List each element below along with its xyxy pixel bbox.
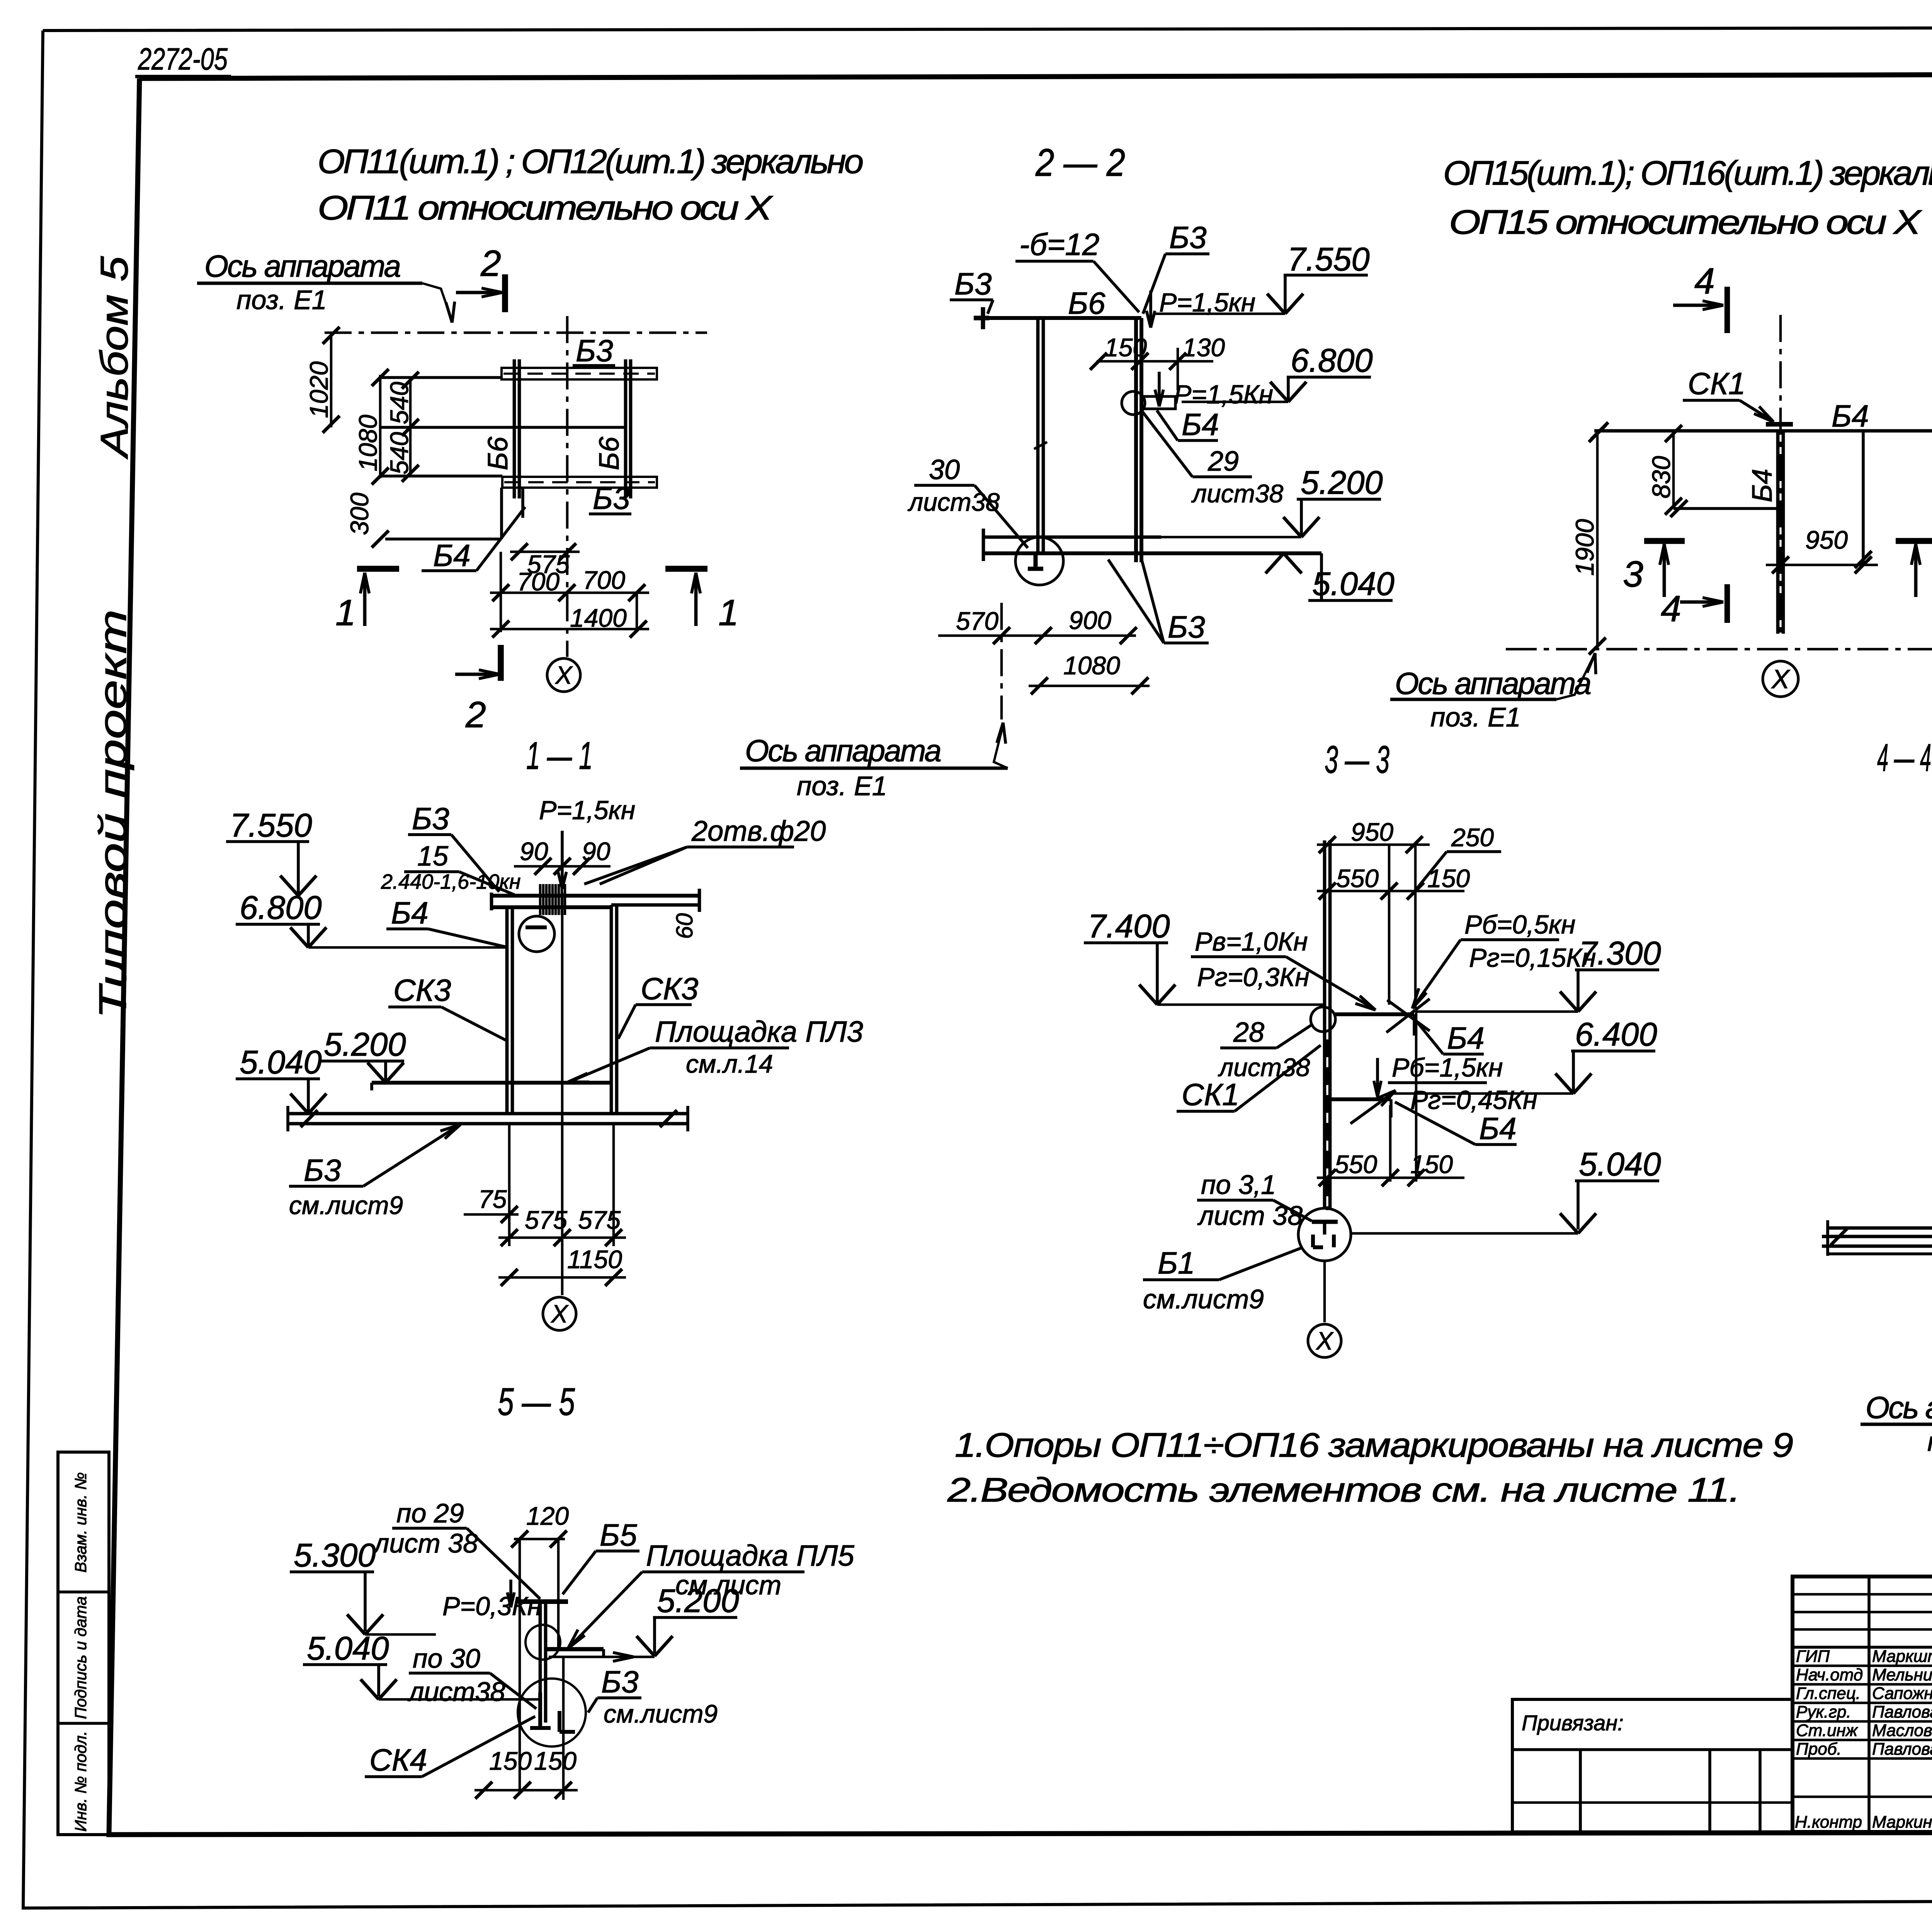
svg-text:ОП11(шт.1) ; ОП12(шт.1) зеркал: ОП11(шт.1) ; ОП12(шт.1) зеркально <box>318 142 863 180</box>
svg-text:Б4: Б4 <box>1447 1021 1485 1055</box>
svg-text:СК3: СК3 <box>393 973 451 1007</box>
svg-text:Б3: Б3 <box>576 333 613 368</box>
svg-text:Н.контр: Н.контр <box>1795 1813 1862 1832</box>
base extension lines <box>508 1124 511 1246</box>
svg-text:15: 15 <box>417 841 449 872</box>
svg-text:120: 120 <box>526 1502 569 1530</box>
svg-text:Ось аппарата: Ось аппарата <box>204 249 400 283</box>
weld circle section1-1 <box>519 916 554 952</box>
svg-text:ОП15(шт.1); ОП16(шт.1) зеркаль: ОП15(шт.1); ОП16(шт.1) зеркально <box>1443 154 1932 192</box>
svg-text:по 29: по 29 <box>396 1498 464 1528</box>
svg-text:Б3: Б3 <box>593 481 630 515</box>
svg-text:Подпись и дата: Подпись и дата <box>71 1596 90 1719</box>
base beam section1-1 <box>288 1112 688 1116</box>
svg-text:575: 575 <box>578 1206 621 1234</box>
column left section2-2 <box>1036 318 1040 553</box>
svg-text:150: 150 <box>534 1747 577 1775</box>
title block outer <box>1793 1577 1932 1832</box>
svg-text:550: 550 <box>1335 1150 1377 1179</box>
dim 1080 <box>372 369 389 386</box>
svg-text:4: 4 <box>1661 588 1681 629</box>
svg-text:Типовой проект: Типовой проект <box>91 609 134 1019</box>
svg-text:5 — 5: 5 — 5 <box>498 1380 575 1423</box>
svg-text:Б3: Б3 <box>304 1153 341 1187</box>
svg-text:-б=12: -б=12 <box>1019 227 1099 262</box>
plan2 centerline vertical <box>1779 315 1782 638</box>
column right section2-2 <box>1134 318 1138 562</box>
dim 830 <box>1672 431 1675 509</box>
svg-text:Б4: Б4 <box>391 896 429 930</box>
svg-text:лист38: лист38 <box>907 488 1000 516</box>
center line section3-3 <box>1323 1261 1326 1322</box>
weld circle mid <box>1122 391 1145 415</box>
svg-text:P=1,5Кн: P=1,5Кн <box>1174 380 1273 409</box>
section marker 3 right <box>1896 538 1932 544</box>
section marker 3 left <box>1644 538 1685 544</box>
svg-text:Маркин: Маркин <box>1872 1813 1932 1832</box>
svg-text:150: 150 <box>1427 864 1470 893</box>
svg-text:Б3: Б3 <box>1168 610 1205 644</box>
svg-text:1080: 1080 <box>354 415 382 471</box>
svg-text:700: 700 <box>583 566 625 594</box>
svg-text:Рук.гр.: Рук.гр. <box>1796 1702 1851 1721</box>
svg-text:30: 30 <box>929 454 960 485</box>
svg-text:Маслова: Маслова <box>1872 1721 1932 1740</box>
svg-text:5.200: 5.200 <box>324 1026 406 1063</box>
center line section1-1 <box>561 893 564 1295</box>
svg-text:Маркштедер: Маркштедер <box>1872 1647 1932 1666</box>
svg-text:5.040: 5.040 <box>240 1044 322 1081</box>
svg-text:лист38: лист38 <box>1191 479 1284 508</box>
svg-text:2272-05: 2272-05 <box>138 42 228 76</box>
svg-text:Б5: Б5 <box>600 1518 637 1552</box>
svg-text:Б3: Б3 <box>1169 220 1207 255</box>
svg-text:4: 4 <box>1694 261 1715 302</box>
svg-text:ГИП: ГИП <box>1796 1647 1830 1666</box>
svg-text:550: 550 <box>1336 864 1379 893</box>
svg-text:90: 90 <box>520 837 548 866</box>
svg-text:5.040: 5.040 <box>307 1630 389 1667</box>
svg-text:Взам. инв. №: Взам. инв. № <box>71 1472 90 1573</box>
svg-text:X: X <box>1315 1327 1334 1355</box>
svg-text:Б3: Б3 <box>412 801 449 836</box>
svg-text:поз. Е1: поз. Е1 <box>1430 702 1521 732</box>
top beam Б6 section2-2 <box>989 316 1141 320</box>
svg-text:6.400: 6.400 <box>1575 1016 1657 1053</box>
svg-text:540: 540 <box>385 432 413 474</box>
svg-text:ОП15 относительно оси Х: ОП15 относительно оси Х <box>1449 203 1922 241</box>
top beam section1-1 <box>492 894 700 898</box>
svg-text:см.лист9: см.лист9 <box>289 1191 403 1219</box>
svg-text:Б3: Б3 <box>601 1665 639 1699</box>
svg-text:1.Опоры ОП11÷ОП16 замаркирован: 1.Опоры ОП11÷ОП16 замаркированы на листе… <box>955 1426 1793 1464</box>
svg-text:300: 300 <box>345 493 374 535</box>
svg-text:Нач.отд: Нач.отд <box>1796 1665 1863 1684</box>
svg-text:950: 950 <box>1351 818 1393 846</box>
svg-text:830: 830 <box>1647 456 1675 498</box>
small circle detail <box>526 1625 560 1660</box>
svg-text:Б4: Б4 <box>1832 399 1869 433</box>
plan centerline vertical <box>566 316 569 657</box>
base beam section2-2 <box>983 536 1161 539</box>
svg-text:150: 150 <box>1104 333 1147 362</box>
platform line section1-1 <box>372 1081 611 1085</box>
svg-text:лист 38: лист 38 <box>1197 1201 1303 1231</box>
svg-text:6.800: 6.800 <box>1291 342 1373 379</box>
beam Б3 top plate <box>502 368 657 379</box>
svg-text:570: 570 <box>956 607 998 635</box>
svg-text:28: 28 <box>1233 1017 1264 1048</box>
column Б6 right <box>624 359 628 498</box>
svg-text:540: 540 <box>385 382 413 424</box>
section marker 1 right <box>665 566 707 572</box>
svg-text:Б4: Б4 <box>1747 469 1778 502</box>
svg-text:Б3: Б3 <box>954 267 992 301</box>
svg-text:7.300: 7.300 <box>1579 935 1661 972</box>
svg-text:Площадка ПЛ5: Площадка ПЛ5 <box>646 1539 854 1572</box>
svg-text:СК3: СК3 <box>641 971 698 1006</box>
bolt hatch section1-1 <box>539 884 542 915</box>
svg-text:5.200: 5.200 <box>657 1583 739 1619</box>
beam1 section3-3 <box>1335 1012 1414 1016</box>
svg-text:60: 60 <box>672 913 697 939</box>
svg-text:2.Ведомость элементов см. на: 2.Ведомость элементов см. на листе 11. <box>947 1471 1740 1509</box>
svg-text:Ось аппарата: Ось аппарата <box>1866 1390 1932 1425</box>
dim 300 <box>372 531 389 548</box>
svg-text:1: 1 <box>335 592 356 633</box>
svg-text:Ст.инж: Ст.инж <box>1796 1721 1858 1740</box>
svg-text:Рг=0,45Кн: Рг=0,45Кн <box>1410 1085 1537 1115</box>
svg-text:5.040: 5.040 <box>1312 566 1395 602</box>
column detail <box>539 1602 542 1723</box>
привязан table <box>1512 1699 1793 1832</box>
weld circle section3-3 <box>1311 1007 1335 1032</box>
signature table rows empty <box>1793 1593 1932 1596</box>
svg-text:Альбом 5: Альбом 5 <box>93 256 136 459</box>
svg-text:Рб=1,5кн: Рб=1,5кн <box>1392 1053 1503 1082</box>
svg-text:СК4: СК4 <box>369 1743 427 1777</box>
svg-text:7.550: 7.550 <box>230 807 312 844</box>
platform plate detail <box>544 1647 604 1651</box>
svg-text:5.040: 5.040 <box>1579 1146 1661 1183</box>
column СК3 left <box>505 907 509 1114</box>
dim 1900 <box>1596 431 1599 649</box>
big circle detail <box>518 1679 586 1747</box>
svg-text:1: 1 <box>718 592 739 633</box>
svg-text:Б4: Б4 <box>1182 407 1219 442</box>
svg-text:Б1: Б1 <box>1158 1246 1195 1280</box>
svg-text:Площадка ПЛ3: Площадка ПЛ3 <box>655 1015 863 1048</box>
beam Б4 plan2 <box>1594 429 1932 433</box>
svg-text:лист38: лист38 <box>407 1677 505 1707</box>
svg-text:250: 250 <box>1451 823 1494 852</box>
svg-text:Ось аппарата: Ось аппарата <box>745 733 940 768</box>
svg-text:Проб.: Проб. <box>1796 1740 1842 1759</box>
section marker 2 bottom <box>498 645 504 681</box>
base circle section3-3 <box>1298 1208 1351 1261</box>
svg-text:75: 75 <box>478 1185 507 1213</box>
svg-text:900: 900 <box>1069 606 1111 634</box>
axis circle X section3-3 <box>1308 1324 1341 1357</box>
svg-text:5.300: 5.300 <box>294 1537 376 1574</box>
base detail circle section2-2 <box>1015 537 1063 585</box>
beam lines Б4 plan <box>380 376 502 379</box>
svg-text:7.400: 7.400 <box>1088 908 1170 945</box>
axis circle X (plan ОП11) <box>547 658 580 692</box>
svg-text:Рг=0,15Кн: Рг=0,15Кн <box>1469 943 1596 973</box>
signature table columns <box>1867 1577 1871 1832</box>
svg-text:2: 2 <box>465 694 486 735</box>
column Б4 plan2 <box>1776 431 1780 634</box>
column section3-3 <box>1323 840 1327 1209</box>
svg-text:1150: 1150 <box>567 1245 622 1274</box>
base beams section4-4 <box>1828 1226 1932 1230</box>
svg-text:130: 130 <box>1182 333 1225 362</box>
svg-text:СК1: СК1 <box>1688 366 1745 401</box>
svg-text:Б6: Б6 <box>1068 286 1105 320</box>
svg-text:Мельников: Мельников <box>1872 1665 1932 1684</box>
svg-text:Рг=0,3Кн: Рг=0,3Кн <box>1197 963 1310 992</box>
svg-text:150: 150 <box>489 1747 532 1775</box>
dim 1020 <box>330 333 333 427</box>
svg-text:6.800: 6.800 <box>240 889 322 926</box>
svg-text:см.лист9: см.лист9 <box>1143 1284 1264 1314</box>
svg-text:5.200: 5.200 <box>1301 464 1383 501</box>
svg-text:см.лист9: см.лист9 <box>604 1699 718 1728</box>
svg-text:СК1: СК1 <box>1182 1077 1239 1112</box>
svg-text:1 — 1: 1 — 1 <box>526 734 593 777</box>
bracket plate Б4 section2-2 <box>1141 396 1175 409</box>
svg-text:1020: 1020 <box>304 361 333 418</box>
svg-text:950: 950 <box>1805 526 1848 554</box>
svg-text:Павлова: Павлова <box>1872 1702 1932 1721</box>
svg-text:поз. Е1: поз. Е1 <box>1927 1427 1932 1457</box>
svg-text:X: X <box>554 661 573 689</box>
svg-text:29: 29 <box>1207 446 1239 477</box>
svg-text:7.550: 7.550 <box>1287 241 1370 278</box>
svg-text:3 — 3: 3 — 3 <box>1325 738 1389 781</box>
svg-text:поз. Е1: поз. Е1 <box>236 285 327 315</box>
svg-text:ОП11 относительно оси Х: ОП11 относительно оси Х <box>318 189 774 227</box>
svg-text:P=1,5кн: P=1,5кн <box>539 796 635 825</box>
svg-text:Б4: Б4 <box>433 538 471 573</box>
plan2 centerline horizontal <box>1506 648 1932 651</box>
svg-text:X: X <box>550 1300 569 1328</box>
margin stamp strip <box>58 1452 109 1835</box>
svg-text:Рб=0,5кн: Рб=0,5кн <box>1464 910 1575 939</box>
svg-text:Ось аппарата: Ось аппарата <box>1395 666 1590 701</box>
svg-text:Б6: Б6 <box>594 436 625 470</box>
svg-text:2: 2 <box>480 243 501 284</box>
svg-text:2отв.ф20: 2отв.ф20 <box>691 815 826 847</box>
column СК3 right <box>610 905 613 1114</box>
svg-text:Павлова: Павлова <box>1872 1740 1932 1759</box>
ось vertical section2-2 <box>1000 603 1003 719</box>
svg-text:по 30: по 30 <box>413 1643 480 1673</box>
column Б6 left <box>513 359 516 498</box>
mid line plan2 <box>1673 507 1778 510</box>
axis circle X section1-1 <box>543 1297 576 1330</box>
axis circle X plan2 <box>1763 661 1798 697</box>
svg-text:лист 38: лист 38 <box>372 1528 478 1558</box>
svg-text:4 — 4: 4 — 4 <box>1877 736 1931 779</box>
section marker 1 left <box>357 566 399 572</box>
svg-text:Б6: Б6 <box>483 436 514 470</box>
svg-text:3: 3 <box>1623 554 1643 595</box>
cross arrows beam1 <box>1386 999 1430 1032</box>
beam Б3 bottom plate <box>502 477 657 488</box>
svg-text:1900: 1900 <box>1570 519 1599 576</box>
beam2 section3-3 <box>1330 1097 1391 1101</box>
svg-text:P=0,3Кн: P=0,3Кн <box>442 1592 542 1621</box>
svg-text:по 3,1: по 3,1 <box>1201 1170 1276 1200</box>
svg-text:Привязан:: Привязан: <box>1522 1711 1624 1735</box>
svg-text:Рв=1,0Кн: Рв=1,0Кн <box>1195 927 1308 956</box>
plan centerline horizontal <box>325 332 707 334</box>
svg-text:Инв. № подл.: Инв. № подл. <box>71 1731 90 1832</box>
svg-text:поз. Е1: поз. Е1 <box>797 771 887 801</box>
svg-text:Сапожникова: Сапожникова <box>1872 1684 1932 1703</box>
svg-text:Гл.спец.: Гл.спец. <box>1796 1684 1861 1703</box>
svg-text:X: X <box>1771 664 1791 694</box>
svg-text:2 — 2: 2 — 2 <box>1035 141 1125 184</box>
dim 540 540 <box>409 378 412 476</box>
svg-text:Б4: Б4 <box>1479 1111 1517 1146</box>
right edge plan2 <box>1862 431 1865 565</box>
svg-text:1080: 1080 <box>1063 651 1120 680</box>
svg-text:см.л.14: см.л.14 <box>686 1049 773 1078</box>
